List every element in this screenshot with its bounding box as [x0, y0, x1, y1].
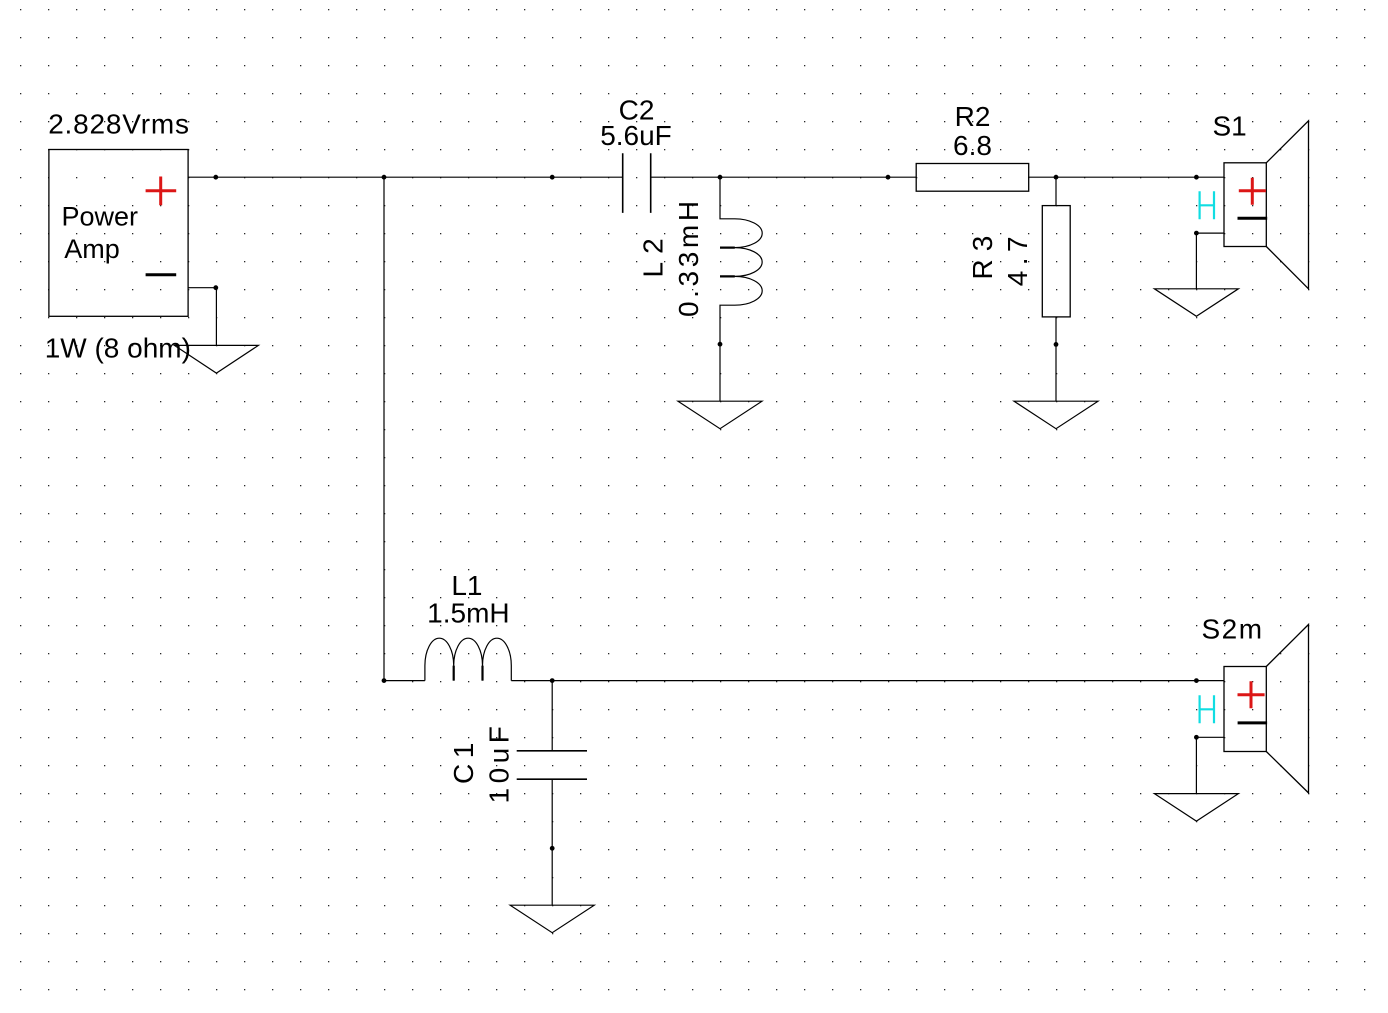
svg-text:S2m: S2m	[1202, 614, 1264, 645]
node D junction dot (L1 right / C1 top)	[550, 678, 555, 683]
junction dot L2 bottom pin	[718, 342, 723, 347]
svg-text:10uF: 10uF	[484, 722, 515, 804]
speaker S2m horn	[1266, 625, 1308, 793]
junction dot S1 - pin	[1194, 231, 1199, 236]
resistor R2 box	[916, 164, 1028, 192]
resistor R3 box	[1042, 206, 1070, 317]
speaker S1 + mark	[1239, 178, 1266, 205]
junction dot S1 + pin	[1194, 175, 1199, 180]
svg-text:S1: S1	[1213, 111, 1247, 142]
ground (power amp)	[174, 345, 258, 373]
speaker S2m - mark	[1238, 721, 1268, 724]
svg-text:L2: L2	[637, 230, 668, 277]
junction dot C2 left pin	[550, 175, 555, 180]
svg-text:L1: L1	[451, 570, 482, 601]
wire: node A down to L1	[384, 177, 425, 680]
inductor L2 coil	[720, 177, 762, 401]
node B junction dot (C2 right / L2 top)	[718, 175, 723, 180]
speaker S1 horn	[1266, 121, 1308, 289]
svg-text:R3: R3	[967, 228, 998, 280]
junction dot V1- pin	[213, 285, 218, 290]
junction dot L1 left pin	[382, 678, 387, 683]
ground (S1)	[1154, 289, 1238, 317]
junction dot S2m - pin	[1194, 735, 1199, 740]
ground (L2)	[678, 401, 762, 429]
capacitor C2 plates	[623, 153, 651, 213]
wire: R2 to S1	[1029, 176, 1224, 178]
junction dot S2m + pin	[1194, 678, 1199, 683]
power amp V1 box	[49, 150, 188, 317]
wire: C2 to R2	[651, 176, 917, 178]
ground (R3)	[1014, 401, 1098, 429]
inductor L1 coil inner stubs	[454, 666, 483, 681]
power amp + terminal	[146, 177, 177, 206]
ground (S2m)	[1154, 794, 1238, 822]
speaker S1 - mark	[1238, 217, 1268, 220]
svg-text:2.828Vrms: 2.828Vrms	[48, 109, 190, 140]
ground (C1)	[510, 905, 594, 933]
speaker S2m + mark	[1238, 681, 1265, 708]
inductor L2 coil inner stubs	[720, 248, 735, 277]
junction dot R2 left pin	[886, 175, 891, 180]
wire: V1+ to C2 left plate	[188, 176, 623, 178]
inductor L1 coil	[425, 638, 511, 680]
svg-text:6.8: 6.8	[953, 130, 992, 161]
wire: L1 to S2m	[511, 680, 1224, 682]
svg-text:1W (8 ohm): 1W (8 ohm)	[45, 333, 191, 364]
svg-text:Power: Power	[62, 201, 139, 231]
node C junction dot (R2 right / R3 top)	[1054, 175, 1059, 180]
svg-text:0.33mH: 0.33mH	[673, 197, 704, 317]
node H marker (S2m)	[1200, 695, 1214, 723]
svg-text:C1: C1	[448, 737, 479, 784]
svg-text:R2: R2	[955, 101, 991, 132]
wire: V1- to ground	[188, 288, 216, 346]
wire: S1 - to ground	[1196, 233, 1224, 289]
svg-text:1.5mH: 1.5mH	[427, 598, 509, 629]
speaker S2m body	[1224, 667, 1266, 752]
svg-text:5.6uF: 5.6uF	[600, 120, 672, 151]
junction dot V1+ pin	[213, 175, 218, 180]
svg-text:Amp: Amp	[64, 234, 120, 264]
junction dot R3 bottom pin	[1054, 342, 1059, 347]
power amp - terminal	[146, 273, 177, 276]
wire: R3 leads	[1055, 177, 1057, 401]
node A junction dot (branch to L1)	[382, 175, 387, 180]
wire: S2m - to ground	[1196, 737, 1224, 793]
junction dot C1 bottom pin	[550, 846, 555, 851]
speaker S1 body	[1224, 163, 1266, 247]
capacitor C1 leads	[551, 681, 553, 906]
capacitor C1 plates	[517, 751, 587, 779]
svg-text:4.7: 4.7	[1002, 231, 1033, 286]
node H marker (S1)	[1200, 191, 1214, 219]
